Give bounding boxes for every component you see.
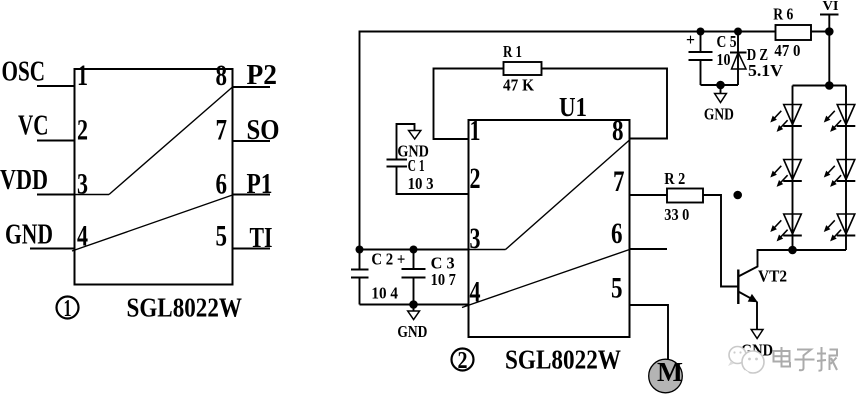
svg-text:7: 7 (216, 114, 228, 147)
svg-text:3: 3 (77, 168, 88, 201)
wire stub to ground symbol below C2 C3 (413, 305, 415, 312)
svg-text:2: 2 (77, 114, 88, 147)
LED D5 arrows (824, 166, 841, 187)
svg-text:OSC: OSC (2, 56, 46, 88)
wire pin5 to motor (630, 305, 669, 360)
svg-text:1: 1 (470, 114, 481, 147)
svg-text:SGL8022W: SGL8022W (505, 345, 621, 375)
U1 body (469, 120, 630, 337)
IC1 internal lead pin3 horizontal (75, 194, 110, 196)
LED D1 (783, 105, 802, 127)
wire C5 top branch (700, 32, 702, 53)
wire C5 DZ ground rail (701, 84, 739, 86)
IC1 pin 4 stub (30, 248, 75, 250)
wire pin2 to C1 (397, 167, 469, 195)
ground symbol below C5 DZ (715, 94, 727, 103)
svg-text:5: 5 (216, 220, 228, 253)
wire VI node down to LED feed (828, 32, 830, 86)
svg-text:8: 8 (612, 114, 624, 147)
LED D4 arrows (824, 111, 841, 132)
svg-text:VI: VI (823, 0, 839, 14)
svg-text:47 0: 47 0 (774, 41, 800, 60)
wire R6 right to VI node (811, 31, 829, 33)
junction dot LED feed (825, 81, 834, 90)
capacitor C1 plates (387, 159, 408, 161)
wire LED top rail (793, 85, 847, 87)
IC1 body SGL8022W pinout (75, 69, 233, 285)
svg-text:33 0: 33 0 (664, 205, 689, 224)
IC1 internal lead diagonal pin4 to pin6 (72, 195, 233, 251)
wire C5 bottom (700, 60, 702, 85)
ground symbol below C2 C3 (408, 311, 420, 320)
LED D3 (783, 214, 802, 236)
transistor VT2 emitter arrowhead (748, 294, 758, 302)
svg-text:R 2: R 2 (664, 169, 685, 188)
svg-text:VC: VC (18, 110, 49, 142)
wire pin1 to R1 left (434, 69, 504, 140)
LED D6 arrows (824, 220, 841, 241)
wire VDD rail top (360, 32, 776, 251)
svg-text:TI: TI (250, 222, 273, 254)
svg-text:P1: P1 (247, 168, 273, 200)
resistor R1 body (504, 62, 542, 75)
svg-text:M: M (657, 357, 683, 387)
LED D6 (837, 214, 856, 236)
junction dot C5 top (697, 28, 705, 36)
zener DZ triangle (732, 53, 747, 70)
LED D1 arrows (770, 111, 787, 132)
LED D5 (837, 160, 856, 182)
svg-text:C 5: C 5 (717, 32, 737, 51)
wire LED right column (845, 86, 847, 251)
LED D4 (837, 105, 856, 127)
resistor R2 body (667, 189, 703, 203)
svg-text:4: 4 (77, 220, 88, 253)
svg-text:SO: SO (247, 114, 280, 146)
wire ground rail to pin4 (360, 304, 469, 306)
svg-text:2: 2 (470, 162, 481, 195)
svg-text:SGL8022W: SGL8022W (127, 293, 243, 323)
svg-text:5: 5 (611, 272, 623, 305)
svg-text:R 1: R 1 (503, 42, 522, 61)
svg-text:R 6: R 6 (773, 5, 793, 24)
wire VI terminal down (828, 15, 830, 32)
IC1 internal lead diagonal pin3 to pin8 (109, 87, 233, 195)
svg-text:4: 4 (470, 276, 481, 309)
svg-text:3: 3 (470, 222, 481, 255)
junction dot DZ top (734, 28, 742, 36)
pin6 stub wire (630, 248, 668, 250)
wire DZ top branch (737, 32, 739, 86)
resistor R6 body (776, 25, 812, 40)
wire emitter down (756, 302, 758, 330)
junction dot VDD corner (356, 246, 364, 254)
wire stub to ground symbol below C5 (720, 85, 722, 94)
VI terminal bar (820, 14, 839, 16)
wire C2 bottom to ground rail (359, 278, 361, 305)
U1 internal lead pin3 horizontal (469, 249, 506, 251)
ground symbol near C1 (409, 131, 421, 140)
U1 internal lead diagonal pin3 to pin8 (506, 140, 630, 250)
ground symbol below VT2 (751, 330, 763, 339)
wire C3 top branch (413, 250, 415, 270)
wire LED bottom rail to VT2 collector (738, 250, 846, 277)
svg-text:5.1V: 5.1V (748, 61, 784, 80)
svg-text:10 3: 10 3 (408, 174, 434, 193)
svg-text:GND: GND (5, 219, 53, 251)
motor M (649, 357, 683, 393)
junction dot VI node (825, 27, 834, 36)
svg-text:8: 8 (216, 59, 228, 92)
svg-text:C 1: C 1 (408, 156, 425, 175)
svg-text:7: 7 (613, 165, 625, 198)
svg-text:P2: P2 (247, 59, 278, 91)
junction dot LED bottom rail (788, 246, 797, 255)
junction dot C5 DZ ground (716, 81, 725, 90)
LED D2 (783, 160, 802, 182)
svg-text:1: 1 (64, 296, 72, 322)
figure 2 circled numeral (452, 348, 474, 374)
svg-text:6: 6 (216, 168, 228, 201)
transistor VT2 emitter (738, 292, 755, 301)
wire C1 top to GND arrow (397, 124, 415, 160)
junction dot C2 C3 ground (409, 300, 418, 309)
wire C3 bottom (413, 278, 415, 305)
svg-text:47 K: 47 K (503, 76, 535, 95)
watermark text bao (817, 347, 837, 371)
wire R1 right to pin8 (542, 69, 668, 139)
svg-text:10 7: 10 7 (431, 270, 457, 289)
capacitor C5 plates (689, 51, 713, 53)
svg-text:VDD: VDD (0, 164, 48, 196)
wire pin3 to VDD node (360, 249, 469, 251)
zener DZ cathode bar (730, 52, 747, 54)
junction dot C3 top (410, 246, 418, 254)
svg-text:6: 6 (611, 217, 623, 250)
figure 1 circled numeral (57, 296, 79, 322)
watermark text dian (774, 347, 791, 367)
svg-text:C 2 +: C 2 + (371, 250, 405, 269)
watermark logo bubbles (728, 347, 764, 377)
transistor VT2 base bar (737, 270, 739, 305)
svg-text:GND: GND (397, 322, 427, 341)
IC1 pin 2 stub (37, 140, 75, 142)
IC1 pin 7 stub (233, 140, 271, 142)
capacitor C3 plates (402, 268, 426, 270)
svg-text:VT2: VT2 (758, 267, 787, 286)
IC1 pin 5 stub (233, 248, 271, 250)
IC1 pin 3 stub (37, 194, 75, 196)
wire LED left column (792, 86, 794, 251)
IC1 pin 6 stub (233, 194, 271, 196)
wire pin7 to R2 (630, 194, 668, 196)
LED D3 arrows (770, 220, 787, 241)
LED D2 arrows (770, 166, 787, 187)
svg-text:2: 2 (458, 348, 468, 374)
U1 internal lead diagonal pin4 to pin6 (462, 250, 630, 308)
svg-text:10: 10 (717, 50, 731, 69)
svg-text:U1: U1 (559, 92, 587, 122)
watermark text zi (795, 350, 815, 371)
svg-text:+: + (686, 30, 695, 49)
floating node dot right of R2 (733, 191, 742, 200)
wire VDD node down to C2 (359, 250, 361, 270)
svg-text:GND: GND (704, 104, 734, 123)
svg-text:10 4: 10 4 (371, 284, 398, 303)
capacitor C2 plates (351, 269, 369, 271)
IC1 pin 8 stub (233, 86, 271, 88)
svg-text:1: 1 (77, 59, 88, 92)
wire R2 to VT2 base (703, 195, 738, 287)
IC1 pin 1 stub (37, 85, 75, 87)
